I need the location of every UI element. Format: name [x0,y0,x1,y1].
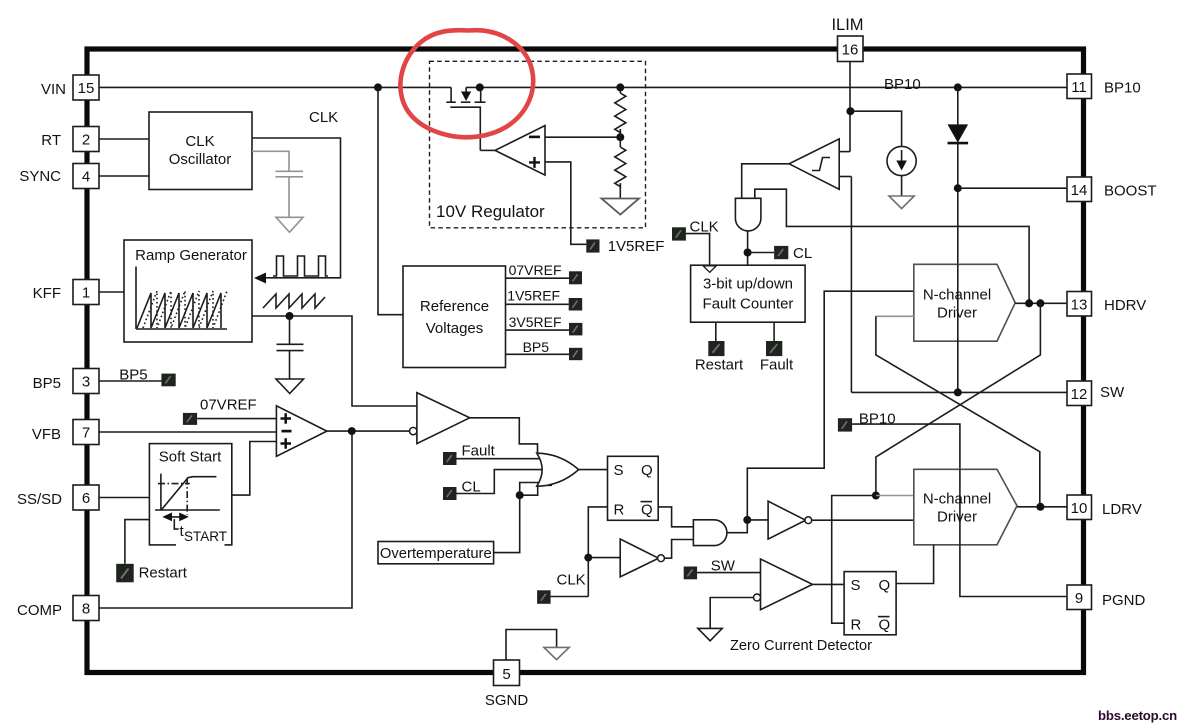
op-amp error amplifier EA [276,406,327,457]
terminal CL counter [774,246,788,259]
ramp generator inner sawtooth dotted [143,291,227,328]
node divider top [616,83,624,91]
transistor body arrow [461,92,471,102]
wire AND1 output down [747,231,749,266]
wire HDRV output to pin 13 [1015,302,1067,304]
block Ramp Generator [124,240,252,342]
terminal SW zcd [684,567,697,580]
current source I-ILIM [887,146,916,175]
svg-text:Soft Start: Soft Start [159,449,222,466]
svg-text:ILIM: ILIM [831,16,863,34]
svg-text:LDRV: LDRV [1102,501,1142,518]
wire EA output to PWM comparator [327,430,410,432]
svg-text:Fault: Fault [760,357,794,374]
pin BP5 3 [73,369,99,394]
wire latch Qbar to AND upper input [658,507,693,527]
svg-text:12: 12 [1071,386,1088,403]
capacitor C-ramp [277,316,304,379]
svg-text:RT: RT [41,132,61,149]
node BOOST junction [954,184,962,192]
svg-text:CL: CL [793,245,812,262]
counter clock wedge [703,266,716,272]
svg-text:07VREF: 07VREF [509,262,562,278]
border frame of IC [87,49,1084,673]
wire counter to Restart terminal [715,322,717,341]
svg-text:Fault: Fault [462,443,496,460]
wire ZCD lower input to ground [710,598,753,629]
wire junction to HDRV long path [747,291,913,520]
wire SW line pin 12 [851,391,1067,393]
svg-text:4: 4 [82,169,90,186]
wire ILIM pin down [849,62,851,152]
wire Overtemperature to OR gate branches [494,483,539,553]
node ILIM / current source junction [846,107,854,115]
node MOSFET drain junction [476,83,484,91]
ground near SGND [544,647,569,659]
wire soft start to EA lower plus input [232,442,277,496]
svg-text:VFB: VFB [32,426,61,443]
pin KFF 1 [73,280,99,305]
node CLK/R/inverter junction [584,554,592,562]
svg-text:COMP: COMP [17,602,62,619]
wire comparator bottom input to SW sense [839,176,851,178]
svg-text:SGND: SGND [485,692,529,709]
svg-text:14: 14 [1071,182,1088,199]
driver N-channel low-side [914,469,1017,545]
svg-text:3-bit up/down: 3-bit up/down [703,276,793,293]
svg-text:3: 3 [82,374,90,391]
svg-text:S: S [851,577,861,594]
buffer LDRV drive [768,501,806,539]
op-amp PWM comparator [410,427,417,434]
pin BP10 11 [1067,74,1092,99]
svg-text:BP10: BP10 [859,411,896,428]
terminal 07VREF ea input [183,413,197,425]
wire current source to ground [901,176,903,196]
wire 1V5REF output [506,303,569,305]
wire ILIM step to comparator top input [839,151,850,153]
svg-text:9: 9 [1075,590,1083,607]
node EA output / COMP junction [348,427,356,435]
driver N-channel high-side [914,264,1015,341]
node divider middle [616,133,624,141]
terminal 1V5REF out [569,298,583,311]
resistor R1 divider top [619,87,621,93]
node VIN to reference voltages [374,83,382,91]
svg-text:N-channel: N-channel [923,287,991,304]
wire counter to Fault terminal [773,322,775,341]
svg-text:BP10: BP10 [1104,80,1141,97]
wire inverter output to AND lower input [664,540,693,559]
transistor pass MOSFET [446,87,485,150]
pin LDRV 10 [1067,495,1092,520]
node HDRV dot B [1036,299,1044,307]
wire sense dot to ZCD latch R [832,496,876,624]
pin SS/SD 6 [73,485,99,510]
wire ramp output to PWM comparator [252,316,417,406]
wire 07VREF to EA plus input [197,418,276,420]
wire SS/SD into soft start [99,497,149,499]
terminal 1V5REF [586,239,599,252]
svg-text:Oscillator: Oscillator [169,151,232,168]
svg-text:R: R [851,617,862,634]
svg-text:Fault Counter: Fault Counter [703,296,794,313]
svg-text:SW: SW [1100,384,1125,401]
comparator hysteretic overcurrent (points left) [789,139,839,189]
svg-text:bbs.eetop.cn: bbs.eetop.cn [1098,708,1177,723]
node SW/boost junction [954,388,962,396]
soft start ramp curve [162,477,217,510]
svg-text:1V5REF: 1V5REF [507,288,560,304]
terminal BP5 left [161,374,175,387]
soft start tstart arrows [164,516,185,518]
arrowhead CLK into ramp generator [254,273,266,284]
soft start dash-dot levels [158,478,190,515]
block CLK Oscillator [149,112,252,190]
wire VFB to EA minus input [99,431,276,433]
svg-text:START: START [184,529,227,544]
node HDRV dot A [1025,299,1033,307]
terminal CL in [443,487,457,500]
annotation red circle around MOSFET [400,30,533,137]
wire AND output to buffer junction [727,520,747,533]
wire op-amp plus input to 1V5REF [545,162,586,244]
svg-text:Zero Current Detector: Zero Current Detector [730,638,872,654]
pin VFB 7 [73,420,99,445]
op-amp regulator error amp (points left) [495,126,545,176]
wire driver bottom to SW line [957,341,959,392]
svg-text:PGND: PGND [1102,592,1146,609]
ramp generator inner axis [136,267,227,330]
terminal Restart counter [708,341,724,356]
wire oscillator to filter cap [252,151,289,171]
node junction ramp/cap [286,312,294,320]
svg-text:R: R [614,502,625,519]
svg-text:N-channel: N-channel [923,491,991,508]
terminal 3V5REF out [569,323,582,336]
svg-text:Restart: Restart [139,565,188,582]
ramp generator inner sawtooth solid [137,293,221,328]
wire BP10 to lower driver top [852,424,960,469]
gate AND pwm [693,520,727,546]
svg-text:Q: Q [879,577,891,594]
svg-text:13: 13 [1071,297,1088,314]
wire AND1 right input from HDRV sense [755,189,1029,303]
svg-text:10V Regulator: 10V Regulator [436,202,545,221]
wire PWM comparator output to OR gate [470,418,538,455]
wire buffer output to lower driver [812,519,914,521]
svg-text:16: 16 [842,42,859,59]
svg-text:2: 2 [82,132,90,149]
wire junction to buffer input [747,519,768,521]
wire CLK to counter clock wedge [686,234,710,266]
wire op-amp output to MOSFET gate [480,149,495,151]
svg-text:HDRV: HDRV [1104,297,1146,314]
wire soft start to Restart terminal [125,520,149,564]
svg-text:6: 6 [82,490,90,507]
dashed box 10V Regulator [430,61,646,228]
latch SR fault-latch [608,456,659,520]
svg-text:BP5: BP5 [523,339,550,355]
sawtooth glyph on ramp output [263,294,325,308]
svg-text:SYNC: SYNC [19,168,61,185]
wire BOOST junction to pin 14 [958,187,1067,189]
pin HDRV 13 [1067,292,1092,317]
wire latch2 Q up to driver bottom [896,545,934,584]
svg-text:Q: Q [641,462,653,479]
inverter clk [620,539,658,577]
svg-text:SS/SD: SS/SD [17,491,62,508]
svg-text:Overtemperature: Overtemperature [380,546,492,562]
svg-text:CLK: CLK [185,133,214,150]
wire RT to oscillator [99,138,149,140]
svg-text:15: 15 [78,80,95,97]
svg-text:CLK: CLK [309,109,338,126]
comparator zero current detector [761,559,813,610]
wire COMP pin up to EA output [99,431,352,608]
wire SYNC to oscillator [99,175,149,177]
pin SW 12 [1067,381,1092,406]
gate OR fault [537,453,579,486]
wire SW terminal to ZCD comparator [697,572,760,574]
wire comparator output to AND1 [742,164,789,199]
terminal Fault in [443,452,457,465]
pin BOOST 14 [1067,177,1092,202]
pin VIN 15 [73,75,99,100]
wire driver bottom to PGND pin [960,545,1067,597]
svg-text:Q: Q [641,502,653,519]
pin SYNC 4 [73,164,99,189]
svg-text:Q: Q [879,617,891,634]
capacitor C-osc [276,171,304,217]
block Overtemperature [378,542,494,564]
svg-text:8: 8 [82,601,90,618]
diode boost [957,87,959,124]
clock pulse waveform glyph [273,256,328,276]
node BP10 rail to diode [954,83,962,91]
terminal BP5 out [569,348,582,360]
wire CLK to junction [551,596,589,598]
svg-text:BP10: BP10 [884,76,921,93]
block 3-bit up/down Fault Counter [691,265,806,322]
ground under ZCD input [698,628,722,640]
svg-text:7: 7 [82,425,90,442]
wire junction to CL terminal [748,252,775,254]
svg-text:10: 10 [1071,500,1088,517]
resistor R2 divider bottom [615,147,626,187]
svg-text:07VREF: 07VREF [200,397,257,414]
wire OR output to latch S [579,469,608,471]
ground under C-osc [276,217,303,232]
pin ILIM 16 [838,36,864,62]
svg-text:Restart: Restart [695,357,744,374]
pin PGND 9 [1067,585,1092,610]
node LDRV sense dot [872,492,880,500]
svg-text:BP5: BP5 [33,375,61,392]
wire CL to OR gate [457,470,544,494]
terminal CLK bottom [537,590,551,604]
wire sense dot into lower driver [876,495,914,497]
ground under C-ramp [276,379,304,394]
terminal Fault counter [766,341,782,356]
wire cross upper sense to LDRV output (diagonal) [876,316,1040,507]
svg-text:Voltages: Voltages [426,320,484,337]
block Soft Start [149,444,231,545]
wire junction to inverter [588,557,620,559]
pin COMP 8 [73,596,99,621]
wire BP5 pin to terminal [99,380,161,382]
wire 3V5REF output [506,329,570,331]
wire VIN down to Reference Voltages [378,87,403,314]
svg-text:Driver: Driver [937,305,977,322]
wire CLK net: oscillator to ramp generator arrow [252,138,341,278]
svg-text:Driver: Driver [937,509,977,526]
wire LDRV output to pin 10 [1017,506,1067,508]
terminal Restart [116,564,134,583]
svg-text:5: 5 [502,666,510,683]
terminal 07VREF out [569,271,582,284]
terminal CLK counter [672,227,686,240]
wire SGND pickup [506,630,557,661]
svg-text:Ramp Generator: Ramp Generator [135,247,247,264]
svg-text:KFF: KFF [33,285,61,302]
wire 07VREF output [506,277,570,279]
svg-text:BP5: BP5 [119,367,147,384]
node LDRV dot [1036,503,1044,511]
ground under current source [889,196,914,209]
wire Fault to OR gate [457,458,542,460]
wire VIN rail (VIN pin to BP10 pin) [99,86,451,88]
node AND output junction [743,516,751,524]
wire to current source [850,111,901,146]
gate AND1 (points down) [735,198,761,231]
wire SW sense vertical [850,177,852,393]
svg-text:1: 1 [82,285,90,302]
svg-text:CLK: CLK [557,572,586,589]
svg-text:3V5REF: 3V5REF [509,314,562,330]
wire cross HDRV sense to lower driver (diagonal) [876,303,1041,495]
svg-text:S: S [614,462,624,479]
pin SGND 5 [494,660,520,686]
wire BP5 output [506,353,570,355]
svg-text:1V5REF: 1V5REF [608,238,665,255]
svg-text:Reference: Reference [420,298,489,315]
ground under divider [602,199,640,215]
wire upper driver sense input (gray) [876,315,914,317]
svg-text:BOOST: BOOST [1104,183,1157,200]
node AND1 output junction [744,249,752,257]
wire KFF to ramp generator [99,291,124,293]
wire ZCD output to latch2 S [813,583,845,585]
latch SR zero-current [844,572,896,635]
node overtemp junction [516,491,524,499]
pin RT 2 [73,127,99,152]
soft start tSTART label [176,524,225,547]
block Reference Voltages [403,266,506,368]
wire latch R input from CLK junction [588,507,607,558]
terminal BP10 [838,418,852,431]
svg-text:VIN: VIN [41,81,66,98]
wire op-amp minus input to divider [545,136,620,138]
soft start axes [155,474,220,510]
svg-text:11: 11 [1071,79,1087,96]
